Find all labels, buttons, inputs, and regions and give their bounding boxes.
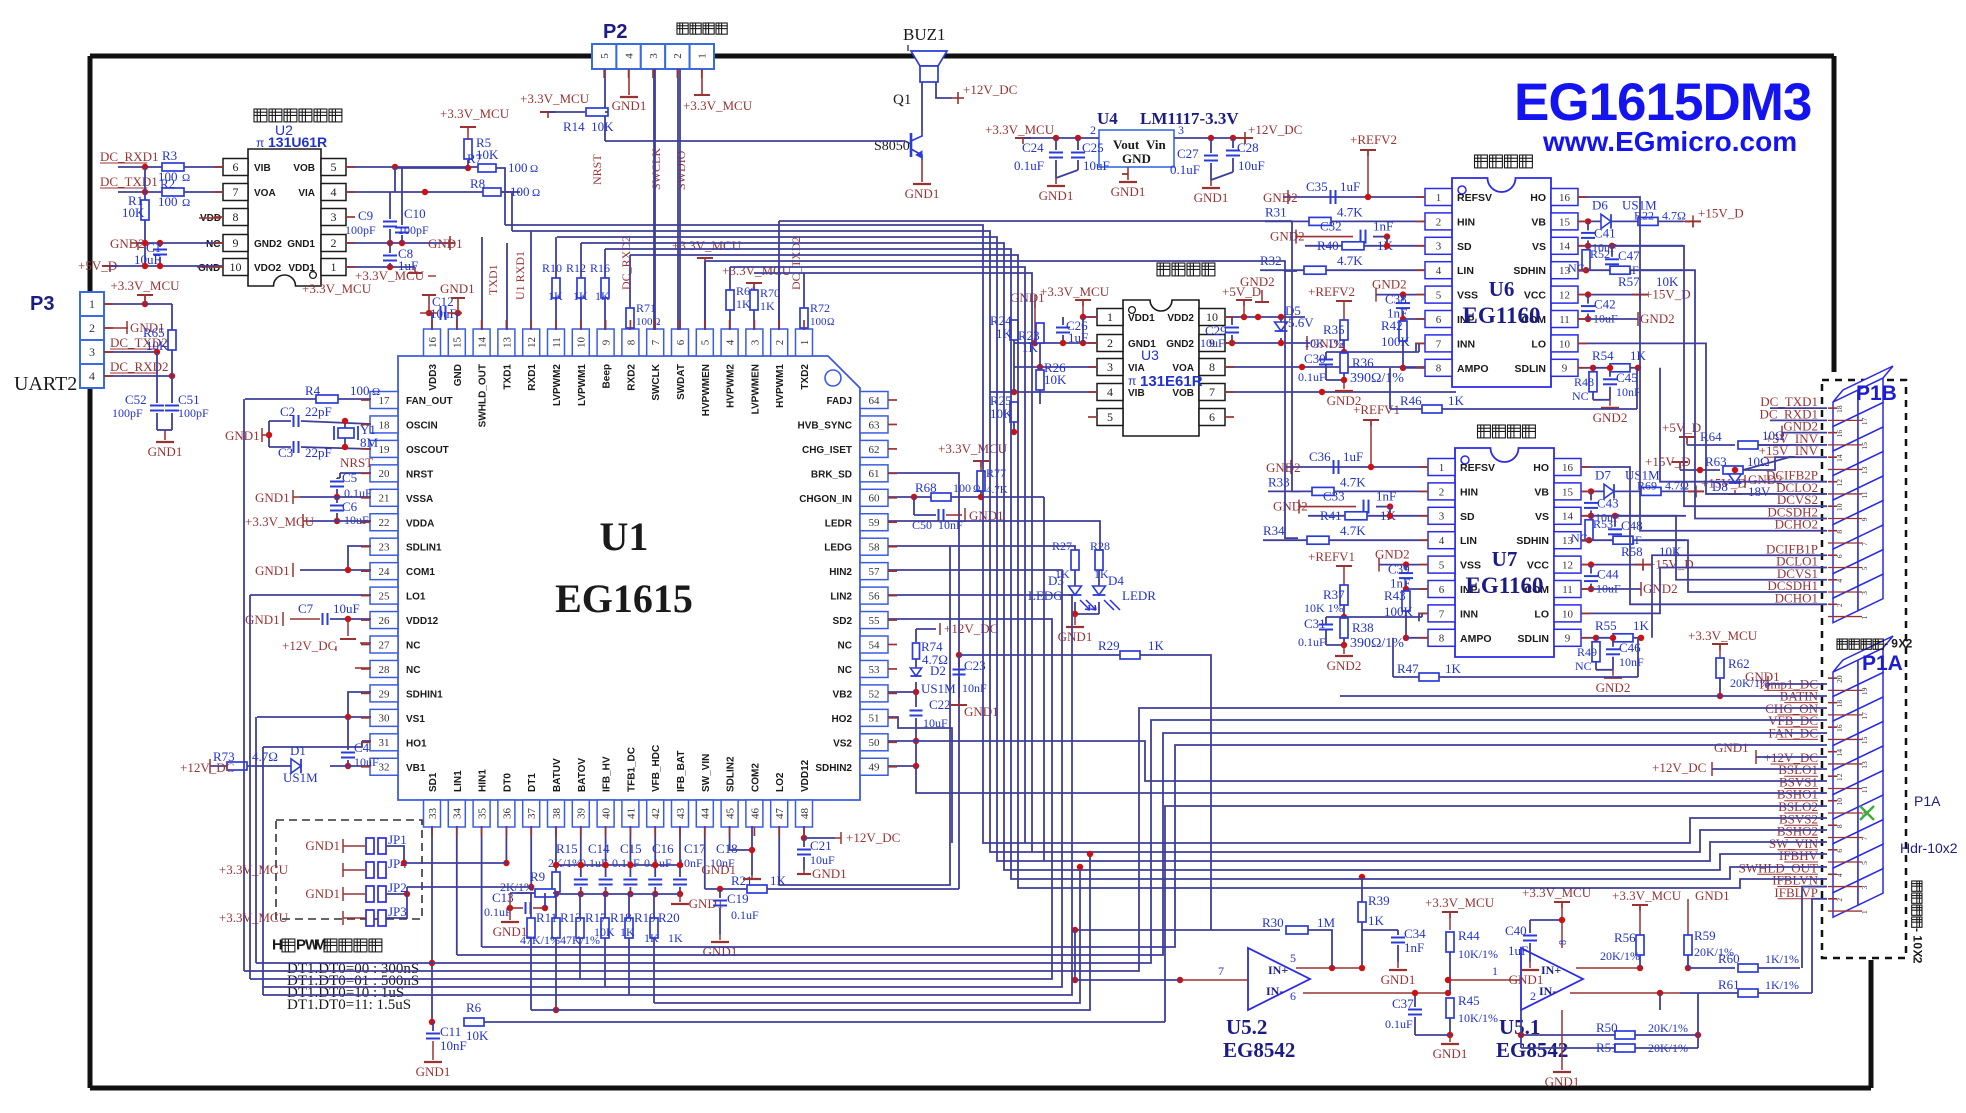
svg-text:46: 46 [749,808,761,820]
svg-text:3: 3 [1860,885,1869,889]
svg-text:17: 17 [379,395,391,407]
svg-text:VFB_HDC: VFB_HDC [651,745,662,792]
svg-text:R44: R44 [1458,928,1480,943]
svg-text:30: 30 [379,713,391,725]
svg-text:DC_RXD2: DC_RXD2 [619,236,633,290]
svg-text:VS: VS [1535,511,1549,523]
svg-text:2: 2 [1911,957,1925,964]
svg-text:SDHIN: SDHIN [1516,535,1549,547]
svg-text:C39: C39 [1388,562,1410,577]
svg-text:HVPWM1: HVPWM1 [775,364,786,408]
svg-text:GND1: GND1 [416,1064,451,1079]
svg-text:1K: 1K [548,289,563,303]
svg-text:62: 62 [869,444,880,456]
svg-text:OSCIN: OSCIN [406,420,438,431]
svg-text:C14: C14 [588,841,610,856]
svg-text:1K: 1K [573,289,588,303]
svg-text:U5.2: U5.2 [1226,1015,1267,1039]
svg-text:R35: R35 [1323,322,1345,337]
svg-text:54: 54 [869,639,881,651]
svg-text:R71: R71 [636,301,656,315]
svg-text:45: 45 [724,808,736,820]
svg-text:C40: C40 [1505,923,1527,938]
svg-text:D6: D6 [1592,197,1608,212]
svg-text:Ω: Ω [827,317,834,328]
svg-text:16: 16 [1559,192,1571,204]
svg-text:C2: C2 [280,404,295,419]
svg-text:1: 1 [1439,462,1445,474]
svg-text:HVB_SYNC: HVB_SYNC [798,420,852,431]
svg-text:C33: C33 [1323,489,1345,504]
svg-text:100: 100 [158,194,178,209]
svg-text:2: 2 [1090,123,1096,137]
svg-text:GND1: GND1 [1039,188,1074,203]
svg-text:TXD1: TXD1 [502,364,513,390]
svg-text:+3.3V_MCU: +3.3V_MCU [1425,895,1495,910]
svg-text:VIA: VIA [298,188,315,199]
svg-text:7: 7 [1209,385,1215,399]
svg-text:+3.3V_MCU: +3.3V_MCU [110,278,180,293]
svg-text:GND2: GND2 [1596,680,1631,695]
svg-text:JP2: JP2 [388,880,407,895]
svg-text:HIN1: HIN1 [478,769,489,792]
svg-text:LO2: LO2 [775,772,786,792]
svg-text:TFB1_DC: TFB1_DC [626,747,637,792]
svg-text:20K/1%: 20K/1% [1600,949,1640,963]
svg-text:6: 6 [675,339,687,345]
svg-text:C21: C21 [810,838,832,853]
svg-text:GND1: GND1 [964,704,999,719]
svg-text:6: 6 [1835,554,1844,558]
svg-text:+3.3V_MCU: +3.3V_MCU [440,106,510,121]
svg-text:R59: R59 [1694,928,1716,943]
svg-text:61: 61 [869,468,880,480]
svg-text:CHG_ISET: CHG_ISET [802,445,852,456]
svg-text:R6: R6 [466,1000,482,1015]
svg-text:1: 1 [1911,935,1925,942]
svg-text:1K/1%: 1K/1% [1765,978,1799,992]
svg-text:8M: 8M [360,435,379,450]
svg-text:R61: R61 [1718,977,1740,992]
svg-text:RXD2: RXD2 [626,364,637,391]
svg-text:D4: D4 [1108,573,1124,588]
svg-text:1K: 1K [620,925,635,939]
svg-text:42: 42 [650,808,662,819]
svg-text:Hdr-10x2: Hdr-10x2 [1900,840,1958,856]
svg-text:1M: 1M [1317,915,1336,930]
svg-text:VB2: VB2 [833,689,853,700]
svg-text:C34: C34 [1404,926,1426,941]
svg-text:1uF: 1uF [1343,449,1363,464]
svg-text:+15V_D: +15V_D [1648,557,1694,572]
svg-text:8: 8 [1835,824,1844,828]
svg-text:9: 9 [600,339,612,345]
svg-text:8: 8 [1209,360,1215,374]
svg-text:11: 11 [551,337,563,348]
svg-text:18: 18 [1835,405,1844,413]
svg-text:R40: R40 [1317,238,1339,253]
svg-text:GND1: GND1 [1433,1046,1468,1061]
svg-text:10K/1%: 10K/1% [1458,1011,1498,1025]
svg-text:IFB_HV: IFB_HV [602,756,613,792]
svg-text:GND1: GND1 [905,186,940,201]
svg-text:GND1: GND1 [1010,290,1045,305]
svg-text:4: 4 [331,185,337,199]
svg-text:8: 8 [1439,633,1445,645]
svg-text:52: 52 [869,688,880,700]
svg-text:LM1117-3.3V: LM1117-3.3V [1140,109,1239,128]
svg-text:GND1: GND1 [255,563,290,578]
svg-text:3: 3 [331,210,337,224]
svg-text:C32: C32 [1320,219,1342,234]
svg-text:R34: R34 [1263,523,1285,538]
svg-text:36: 36 [501,808,513,820]
svg-text:20: 20 [1835,675,1844,683]
svg-text:3: 3 [749,339,761,345]
svg-text:24: 24 [379,566,391,578]
svg-text:25: 25 [379,590,391,602]
svg-text:7: 7 [233,185,239,199]
svg-text:5: 5 [1436,289,1442,301]
svg-text:www.EGmicro.com: www.EGmicro.com [1542,126,1797,157]
svg-text:REFSV: REFSV [1457,192,1492,204]
svg-text:59: 59 [869,517,881,529]
svg-text:1uF: 1uF [1508,943,1528,958]
svg-text:Ω: Ω [532,187,540,199]
svg-text:VB: VB [1531,216,1546,228]
svg-text:100: 100 [636,316,653,328]
svg-text:10K: 10K [146,338,169,353]
svg-text:10K: 10K [990,406,1013,421]
svg-text:CHGON_IN: CHGON_IN [799,494,852,505]
svg-text:39: 39 [576,808,588,820]
svg-text:R17: R17 [585,910,607,925]
svg-text:NC: NC [838,665,852,676]
svg-text:5: 5 [331,160,337,174]
svg-text:9: 9 [1565,633,1571,645]
svg-text:131U61R: 131U61R [268,134,327,150]
svg-text:GND1: GND1 [689,896,724,911]
svg-text:GND1: GND1 [1545,1074,1580,1089]
svg-text:LIN: LIN [1460,535,1477,547]
svg-text:COM2: COM2 [750,763,761,792]
svg-text:10: 10 [576,337,588,349]
svg-text:JP3: JP3 [388,904,407,919]
svg-text:100K: 100K [1381,334,1411,349]
svg-text:Vin: Vin [1146,137,1167,152]
svg-text:C36: C36 [1309,449,1331,464]
svg-text:6: 6 [1290,989,1296,1003]
svg-text:1K: 1K [595,289,610,303]
svg-text:FAN_OUT: FAN_OUT [406,396,453,407]
svg-text:1: 1 [89,297,95,311]
svg-text:+5V_D: +5V_D [1222,284,1261,299]
svg-text:BATUV: BATUV [552,758,563,792]
svg-text:47K/1%: 47K/1% [520,933,560,947]
svg-text:14: 14 [1835,749,1844,757]
svg-text:GND: GND [1122,151,1151,166]
svg-text:FADJ: FADJ [826,396,852,407]
svg-text:R39: R39 [1368,893,1390,908]
svg-text:+3.3V_MCU: +3.3V_MCU [520,91,590,106]
svg-text:R7: R7 [467,151,483,166]
svg-text:11: 11 [1860,491,1869,498]
svg-text:1K: 1K [736,297,751,311]
svg-text:VSS: VSS [1457,290,1478,302]
svg-text:REFSV: REFSV [1460,462,1495,474]
svg-text:1nF: 1nF [1404,940,1424,955]
svg-text:R63: R63 [1705,454,1727,469]
svg-text:1K: 1K [1094,567,1109,581]
svg-text:SD2: SD2 [833,616,853,627]
svg-text:5: 5 [700,339,712,345]
svg-text:7: 7 [1860,542,1869,546]
svg-text:R48: R48 [1574,375,1594,389]
svg-text:UART2: UART2 [14,373,77,395]
svg-text:C44: C44 [1597,567,1619,582]
svg-text:VCC: VCC [1524,290,1547,302]
svg-text:+REFV1: +REFV1 [1308,549,1355,564]
svg-text:+3.3V_MCU: +3.3V_MCU [219,862,289,877]
svg-text:R54: R54 [1592,348,1614,363]
svg-text:390Ω/1%: 390Ω/1% [1350,636,1404,651]
svg-text:6: 6 [233,160,239,174]
svg-text:EG8542: EG8542 [1223,1038,1295,1062]
svg-text:LEDR: LEDR [1122,588,1156,603]
svg-text:VDDA: VDDA [406,518,434,529]
svg-text:1: 1 [1107,310,1113,324]
svg-text:VDO2: VDO2 [254,263,282,274]
svg-text:DC_TXD1: DC_TXD1 [100,174,158,189]
svg-text:20K/1%: 20K/1% [1648,1021,1688,1035]
svg-text:R41: R41 [1320,508,1342,523]
svg-text:16: 16 [427,337,439,349]
svg-text:7: 7 [650,339,662,345]
svg-text:10K: 10K [122,205,145,220]
svg-text:BUZ1: BUZ1 [903,25,946,44]
svg-text:1K: 1K [1445,661,1462,676]
svg-text:EG1615: EG1615 [555,576,693,621]
svg-text:GND2: GND2 [1372,277,1407,292]
svg-text:LIN2: LIN2 [830,592,852,603]
svg-text:R20: R20 [658,910,680,925]
svg-text:14: 14 [1559,241,1571,253]
svg-text:0.1uF: 0.1uF [1014,158,1044,173]
svg-text:100pF: 100pF [178,406,209,420]
svg-text:2: 2 [1906,636,1913,650]
svg-text:1uF: 1uF [1340,179,1360,194]
svg-text:C11: C11 [440,1024,461,1039]
svg-text:GND2: GND2 [1593,410,1628,425]
svg-text:GND1: GND1 [1381,972,1416,987]
svg-text:SW_VIN: SW_VIN [701,754,712,792]
svg-text:C37: C37 [1392,996,1414,1011]
svg-text:1K: 1K [760,299,775,313]
svg-text:VDD1: VDD1 [1128,313,1155,324]
svg-text:DC_RXD2: DC_RXD2 [110,359,169,374]
svg-text:AMPO: AMPO [1457,363,1489,375]
svg-text:3: 3 [1436,241,1442,253]
svg-text:+12V_DC: +12V_DC [846,830,900,845]
svg-text:2: 2 [1439,486,1445,498]
svg-text:6: 6 [1209,410,1215,424]
svg-text:12: 12 [1562,559,1573,571]
svg-text:SDHIN2: SDHIN2 [815,763,852,774]
svg-text:IN+: IN+ [1268,963,1288,977]
svg-text:R22: R22 [1634,208,1654,222]
svg-text:4.7Ω: 4.7Ω [1665,478,1689,492]
svg-text:C5: C5 [342,470,357,485]
svg-text:R42: R42 [1381,318,1403,333]
svg-text:40: 40 [600,808,612,820]
svg-text:R12: R12 [566,261,586,275]
svg-text:11: 11 [1559,314,1570,326]
svg-text:R55: R55 [1595,618,1617,633]
svg-text:8: 8 [233,210,239,224]
svg-text:2: 2 [331,236,337,250]
svg-text:RXD1: RXD1 [527,364,538,391]
svg-text:16: 16 [1835,430,1844,438]
svg-text:DT1.DT0=11: 1.5uS: DT1.DT0=11: 1.5uS [287,997,411,1013]
svg-text:5: 5 [1860,566,1869,570]
svg-text:R60: R60 [1718,951,1740,966]
svg-text:LO: LO [1534,608,1549,620]
svg-text:HO1: HO1 [406,738,427,749]
svg-text:C43: C43 [1597,495,1619,510]
svg-text:1: 1 [1492,964,1498,978]
svg-text:SD: SD [1457,241,1472,253]
svg-text:GND1: GND1 [701,862,736,877]
svg-text:5: 5 [1860,861,1869,865]
svg-text:Ω: Ω [973,484,980,495]
svg-text:1K: 1K [1633,618,1650,633]
svg-text:R46: R46 [1400,393,1422,408]
svg-text:R31: R31 [1265,204,1287,219]
svg-text:31: 31 [379,737,390,749]
svg-text:10K/1%: 10K/1% [1458,947,1498,961]
svg-text:SDHIN: SDHIN [1513,265,1546,277]
svg-text:27: 27 [379,639,391,651]
svg-text:2: 2 [1107,336,1113,350]
svg-text:10: 10 [1835,503,1844,511]
svg-text:11: 11 [1562,584,1573,596]
svg-text:10K: 10K [466,1028,489,1043]
svg-text:3: 3 [89,345,95,359]
svg-text:33: 33 [427,808,439,820]
svg-text:3: 3 [648,53,660,59]
svg-text:14: 14 [476,337,488,349]
svg-text:P2: P2 [603,21,627,43]
svg-text:VDD1: VDD1 [288,263,315,274]
svg-text:100: 100 [508,160,528,175]
svg-text:21: 21 [379,493,390,505]
svg-text:7: 7 [1218,964,1224,978]
svg-text:U3: U3 [1141,347,1159,363]
svg-text:GND1: GND1 [1695,888,1730,903]
svg-text:GND1: GND1 [1194,190,1229,205]
svg-text:16: 16 [1835,724,1844,732]
svg-text:5: 5 [1107,410,1113,424]
svg-text:VS2: VS2 [833,738,852,749]
svg-text:VDD12: VDD12 [800,759,811,792]
svg-text:16: 16 [1562,462,1574,474]
svg-text:R68: R68 [915,480,937,495]
svg-text:C38: C38 [1385,292,1407,307]
svg-text:8: 8 [1835,530,1844,534]
svg-text:0.1uF: 0.1uF [1298,635,1326,649]
svg-text:GND1: GND1 [305,838,340,853]
svg-text:R30: R30 [1262,915,1284,930]
svg-text:+12V_DC: +12V_DC [1248,122,1302,137]
svg-text:C52: C52 [125,392,147,407]
svg-text:15: 15 [1559,216,1571,228]
svg-text:17: 17 [1860,712,1869,720]
svg-text:R37: R37 [1323,587,1345,602]
svg-text:GND1: GND1 [255,490,290,505]
svg-text:9: 9 [233,236,239,250]
svg-text:SDLIN: SDLIN [1515,363,1547,375]
svg-text:390Ω/1%: 390Ω/1% [1350,371,1404,386]
svg-text:LEDR: LEDR [825,518,853,529]
svg-text:15: 15 [1860,442,1869,450]
svg-text:9: 9 [1891,636,1898,650]
svg-text:7: 7 [1436,338,1442,350]
svg-text:37: 37 [526,808,538,820]
svg-text:HIN: HIN [1460,486,1478,498]
svg-text:NC: NC [838,641,852,652]
svg-text:VS1: VS1 [406,714,425,725]
svg-text:GND2: GND2 [1640,311,1675,326]
svg-text:18: 18 [379,419,391,431]
svg-text:12: 12 [1835,773,1844,781]
svg-text:38: 38 [551,808,563,820]
svg-text:GND2: GND2 [1375,547,1410,562]
svg-text:VS: VS [1532,241,1546,253]
svg-text:GND2: GND2 [1748,472,1783,487]
svg-text:100: 100 [810,316,827,328]
svg-text:Q1: Q1 [893,92,911,108]
svg-text:SD1: SD1 [428,772,439,792]
svg-text:U1 RXD1: U1 RXD1 [513,251,527,300]
svg-text:1K: 1K [668,931,683,945]
svg-text:C10: C10 [404,206,426,221]
svg-text:+3.3V_MCU: +3.3V_MCU [1612,888,1682,903]
svg-text:HVPWM2: HVPWM2 [726,364,737,408]
svg-text:R38: R38 [1352,620,1374,635]
svg-text:R43: R43 [1384,588,1406,603]
svg-text:NC: NC [1571,531,1588,545]
svg-text:R45: R45 [1458,993,1480,1008]
svg-text:+REFV2: +REFV2 [1308,284,1355,299]
svg-text:22: 22 [379,517,390,529]
svg-text:R36: R36 [1352,355,1374,370]
svg-text:2: 2 [1835,603,1844,607]
svg-text:C24: C24 [1022,140,1044,155]
svg-text:GND1: GND1 [305,886,340,901]
svg-text:C9: C9 [358,208,373,223]
svg-text:19: 19 [1860,687,1869,695]
svg-text:π: π [256,136,264,150]
svg-text:10uF: 10uF [1083,158,1110,173]
svg-text:4: 4 [724,339,736,345]
svg-text:Ω: Ω [182,197,190,209]
svg-text:C22: C22 [929,697,951,712]
svg-text:VB: VB [1534,486,1549,498]
svg-text:VSS: VSS [1460,560,1481,572]
svg-text:SWDAT: SWDAT [676,364,687,400]
svg-text:GND2: GND2 [1166,339,1194,350]
svg-text:R15: R15 [556,841,578,856]
